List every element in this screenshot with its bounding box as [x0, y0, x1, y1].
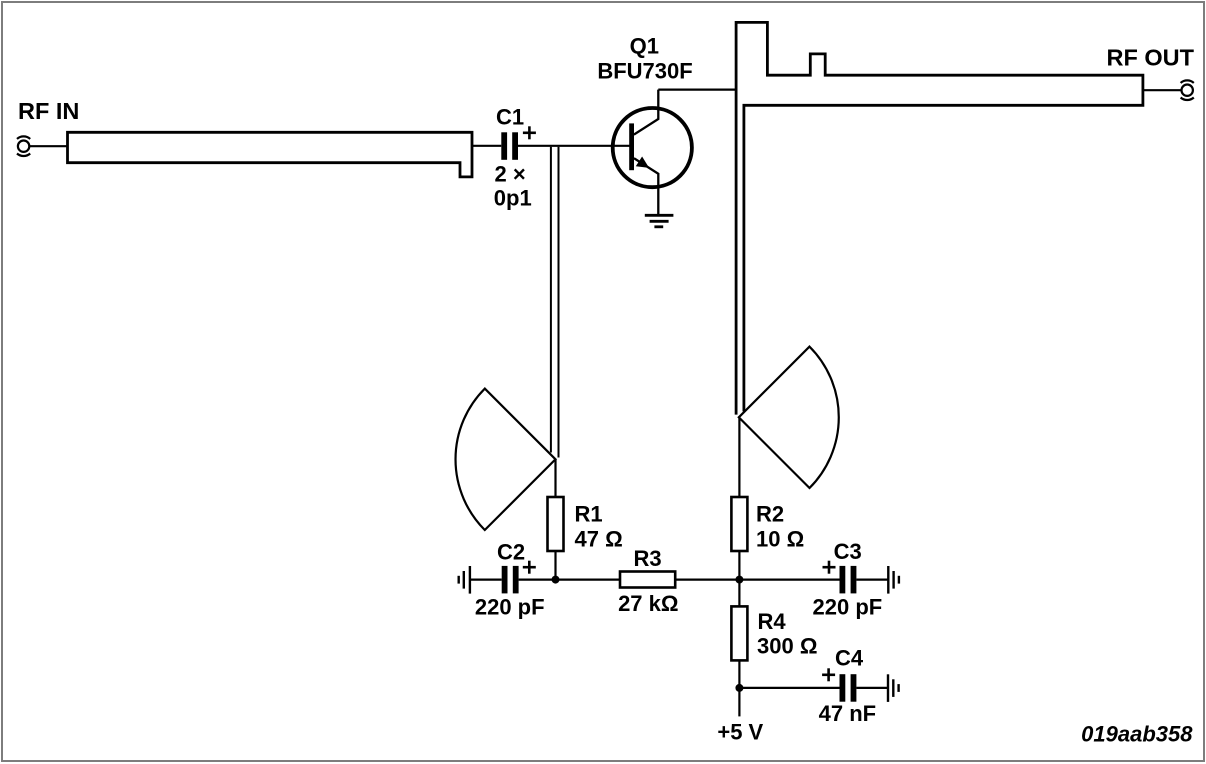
R4 label	[758, 609, 787, 634]
Q1 label	[630, 33, 659, 58]
C3 value 220 pF	[813, 595, 883, 620]
node +5 V label	[717, 720, 763, 745]
svg-text:220 pF: 220 pF	[813, 595, 883, 620]
drawing number 019aab358	[1081, 721, 1193, 746]
R2 value 10 ohm	[756, 527, 804, 552]
C3 polarity plus	[823, 561, 836, 574]
C1 polarity plus	[523, 126, 536, 139]
radial stub (left)	[456, 389, 556, 530]
capacitor C2	[502, 566, 519, 594]
svg-text:BFU730F: BFU730F	[597, 59, 692, 84]
wire bias node to R4	[738, 580, 740, 607]
svg-text:47 Ω: 47 Ω	[575, 527, 623, 552]
C1 label	[496, 105, 524, 130]
transistor Q1	[613, 90, 692, 215]
wire C4 to ground	[856, 687, 888, 689]
wire supply node down	[738, 688, 740, 717]
connector J2 (RF OUT)	[1181, 80, 1194, 100]
resistor R1	[548, 497, 564, 551]
svg-text:10 Ω: 10 Ω	[756, 527, 804, 552]
R4 value 300 ohm	[757, 634, 817, 659]
wire supply node to C4	[739, 687, 839, 689]
junction node R2/R3/R4	[735, 576, 743, 584]
resistor R4	[731, 606, 747, 660]
R3 label	[633, 546, 661, 571]
svg-text:RF OUT: RF OUT	[1107, 45, 1195, 71]
wire ground to C2	[470, 578, 502, 580]
R2 label	[756, 502, 784, 527]
svg-text:C3: C3	[834, 539, 862, 564]
svg-text:27 kΩ: 27 kΩ	[618, 591, 678, 616]
ground (C3, right)	[888, 566, 899, 594]
junction node +5V/C4	[735, 684, 743, 692]
capacitor C4	[840, 674, 857, 702]
ground (C4, right)	[888, 674, 899, 702]
C4 polarity plus	[822, 668, 835, 681]
wire stub to R1	[554, 459, 556, 497]
connector J1 (RF IN)	[17, 136, 30, 156]
Q1 part number BFU730F	[597, 59, 692, 84]
wire TL2 to RF OUT connector	[1143, 89, 1182, 91]
svg-text:300 Ω: 300 Ω	[757, 634, 817, 659]
svg-text:R3: R3	[633, 546, 661, 571]
svg-text:0p1: 0p1	[494, 185, 532, 210]
wire J1 to input microstrip	[30, 145, 68, 147]
microstrip line TL1 (input)	[68, 132, 473, 177]
svg-text:C1: C1	[496, 105, 524, 130]
node RF OUT label	[1107, 45, 1195, 71]
wire R2 to bias node	[738, 551, 740, 580]
junction node R1/C2	[552, 576, 560, 584]
svg-text:Q1: Q1	[630, 33, 659, 58]
wire C2 to R3 (through R1 node)	[519, 578, 620, 580]
capacitor C1	[501, 132, 518, 160]
C2 label	[497, 540, 525, 565]
wire Q1 collector to output microstrip	[658, 88, 736, 90]
svg-text:47 nF: 47 nF	[819, 701, 876, 726]
wire C3 to ground	[856, 578, 888, 580]
svg-text:R4: R4	[758, 609, 787, 634]
wire R1 to bias node	[554, 551, 556, 580]
svg-text:2 ×: 2 ×	[495, 161, 526, 186]
wire R3 to center bias node	[675, 578, 739, 580]
R3 value 27 kohm	[618, 591, 678, 616]
wire C1 to Q1 base	[518, 145, 632, 147]
wire stub to R2	[738, 417, 740, 497]
C4 label	[835, 646, 864, 671]
C2 value 220 pF	[475, 595, 545, 620]
resistor R3	[620, 572, 675, 588]
svg-text:RF IN: RF IN	[18, 98, 79, 124]
node RF IN label	[18, 98, 79, 124]
C4 value 47 nF	[819, 701, 876, 726]
R1 value 47 ohm	[575, 527, 623, 552]
svg-text:C4: C4	[835, 646, 864, 671]
svg-text:019aab358: 019aab358	[1081, 721, 1193, 746]
wire TL1 to C1	[472, 145, 501, 147]
microstrip stub line (thin, down to left radial stub)	[551, 147, 559, 458]
svg-text:R1: R1	[575, 502, 603, 527]
R1 label	[575, 502, 603, 527]
C1 value 2 x 0p1	[494, 161, 532, 210]
wire R4 to supply node	[738, 661, 740, 688]
radial stub (right)	[739, 347, 839, 488]
wire center node to C3	[739, 578, 839, 580]
ground (C2, left)	[459, 566, 470, 594]
C3 label	[834, 539, 862, 564]
svg-text:+5 V: +5 V	[717, 720, 763, 745]
svg-text:R2: R2	[756, 502, 784, 527]
capacitor C3	[840, 566, 857, 594]
C2 polarity plus	[523, 561, 536, 574]
svg-text:220 pF: 220 pF	[475, 595, 545, 620]
svg-text:C2: C2	[497, 540, 525, 565]
ground (Q1 emitter)	[645, 215, 674, 227]
resistor R2	[731, 497, 747, 551]
microstrip line TL2 (output, with open stub and matching steps)	[736, 22, 1143, 414]
